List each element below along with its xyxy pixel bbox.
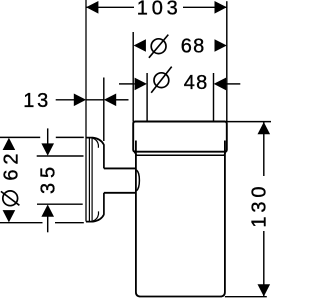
dia68 left arrow [134,39,146,52]
wall plate bottom inner crease [93,211,99,221]
dimension 103 left arrow [86,1,98,14]
dia48 right extension line [213,73,215,122]
dimension 130 up arrow [258,122,271,134]
wall plate dome front edge [103,145,105,215]
dia62 down arrow [3,210,16,222]
dimension 130 line [263,122,265,296]
wall plate top inner crease [93,138,99,148]
dia68 diameter symbol [149,35,168,58]
dimension 35 bottom extension line [37,203,83,205]
dia48 right arrow with tail [226,83,240,85]
dimension 130 label (rotated) [248,186,270,227]
clamp bulge on glass [136,170,139,191]
dia62 diameter symbol (upright) [1,191,20,206]
dimension 62 label (rotated) [1,153,23,180]
dimension 13 right arrow with tail [116,99,129,101]
dimension 35 top arrow with tail [47,128,49,144]
holder rim outline [133,122,227,152]
dimension 35 label (rotated) [38,167,60,194]
dimension 103 line [86,6,227,8]
wall line (left extension line) [85,0,87,222]
dimension 130 bottom extension line [225,296,267,298]
dia62 up arrow [3,138,16,150]
dimension 13 extension line (front of wall plate) [103,78,105,142]
dia68 left extension line (continues as rim left edge) [132,32,134,122]
svg-text:1: 1 [248,216,270,227]
dia62 top extension line [0,136,84,138]
dia62 bottom extension line [0,222,84,224]
wall plate bottom edge with dome curve [86,215,104,222]
svg-text:5: 5 [38,167,60,178]
svg-text:3: 3 [38,183,60,194]
dia48 left arrow with tail [119,83,135,85]
svg-text:6: 6 [1,169,23,180]
wall plate top edge with dome curve [86,138,104,145]
dimension 103 right arrow [215,1,227,14]
dimension 35 top extension line [37,155,84,157]
dimension 13 left arrow with tail [56,99,74,101]
svg-text:3: 3 [248,201,270,212]
dia48 left extension line [146,73,148,122]
right extension line (front of tumbler rim) [226,1,228,121]
holder rim lip [134,152,225,155]
dimension 130 top extension line (continues rim top edge) [227,121,271,123]
dia48 diameter symbol [151,67,172,93]
support arm [104,168,136,192]
dia68 right arrow [215,39,227,52]
wall plate inner ring lines [89,138,92,221]
dimension 13 dimension line between arrows [86,99,104,101]
svg-text:103: 103 [137,0,182,20]
svg-text:2: 2 [1,153,23,164]
dimension 35 bottom arrow with tail [47,216,49,233]
dimension 130 down arrow [258,284,271,296]
glass tumbler [136,141,225,297]
svg-text:68: 68 [181,35,206,57]
svg-text:13: 13 [23,90,51,112]
svg-text:0: 0 [248,186,270,197]
svg-text:48: 48 [184,72,209,94]
